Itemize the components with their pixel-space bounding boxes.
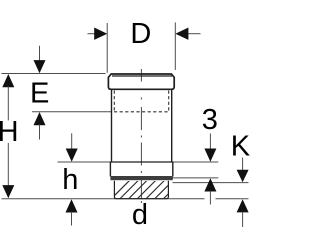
svg-text:D: D	[130, 18, 151, 50]
socket floor dashed line	[114, 111, 169, 113]
wire: E bottom reference line	[32, 111, 111, 113]
ring right edge	[172, 162, 174, 177]
collar lip line	[112, 75, 172, 77]
wire: D left extension line	[106, 23, 108, 73]
wire: h top reference line	[58, 161, 111, 163]
wire: 3 top reference line (right)	[173, 161, 219, 163]
wire: K bottom reference line (right segment)	[216, 198, 249, 200]
arrow E up + shaft	[34, 112, 46, 125]
wire: D dim shaft left	[88, 33, 97, 35]
wire: K top reference line (behind arrow)	[173, 182, 249, 184]
svg-text:H: H	[0, 116, 19, 148]
arrow 3 up + shaft	[204, 178, 216, 191]
svg-text:h: h	[62, 164, 78, 196]
wire: bottom reference line (main)	[2, 198, 205, 200]
socket bore dashed walls	[114, 91, 168, 113]
arrow h up + shaft	[66, 199, 78, 212]
svg-text:E: E	[30, 77, 49, 109]
arrow K up + shaft	[237, 199, 249, 212]
wire: 3 bottom reference line (right)	[173, 177, 219, 179]
arrow H down + shaft	[7, 143, 9, 186]
wire: top reference line (E/H top)	[2, 73, 106, 75]
hatch diagonal lines	[100, 175, 196, 210]
arrow 3 down + shaft	[209, 134, 211, 150]
hatch band outline	[114, 181, 168, 199]
wire: D right extension line	[174, 22, 176, 70]
hatch band thick top line	[110, 176, 172, 180]
svg-text:K: K	[231, 131, 250, 163]
body right edge	[171, 89, 173, 162]
ring left edge	[109, 162, 111, 177]
body left edge	[111, 89, 113, 162]
centerline dash-dot	[140, 69, 142, 203]
collar (socket rim) outline	[108, 74, 174, 89]
arrow D right-pointing	[94, 28, 107, 40]
svg-text:d: d	[132, 199, 148, 231]
wire: D dim shaft right	[186, 33, 200, 35]
arrow E down + shaft	[39, 46, 41, 62]
arrow K down + shaft	[242, 158, 244, 172]
arrow h down + shaft	[71, 133, 73, 149]
svg-text:3: 3	[202, 104, 218, 136]
arrow D left-pointing	[175, 28, 188, 40]
arrow H up + shaft	[2, 74, 14, 87]
ring top line	[110, 161, 172, 163]
